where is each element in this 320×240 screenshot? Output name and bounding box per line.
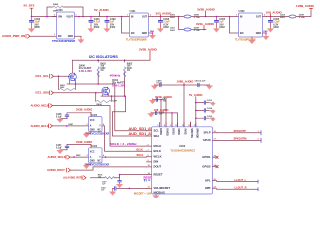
svg-text:AUDIO_BCLK: AUDIO_BCLK (31, 124, 51, 128)
ground C415 (211, 117, 216, 121)
svg-text:SPKVSS: SPKVSS (190, 128, 193, 138)
wire buffer2 Y to WCLK pin (102, 156, 147, 158)
svg-text:TLV75533PDQNR: TLV75533PDQNR (126, 39, 147, 42)
port AUDIO_BCLK (31, 124, 53, 128)
net 3V3B_AUDIO label buffer2 (76, 140, 92, 148)
svg-text:DOUT: DOUT (154, 165, 162, 169)
node Y2 junction (105, 156, 107, 158)
svg-text:600R: 600R (299, 14, 305, 16)
svg-text:0805: 0805 (34, 26, 40, 29)
svg-text:1%: 1% (127, 70, 130, 72)
svg-text:3V3B_AUDIO: 3V3B_AUDIO (76, 107, 92, 111)
ground 3V3B group (149, 99, 155, 104)
port AUDIO_PWR_ON (2, 34, 30, 38)
ground under C404 (213, 27, 219, 32)
svg-text:MICBIAS: MICBIAS (154, 191, 166, 195)
svg-text:U402: U402 (239, 10, 246, 13)
svg-text:I2C1_SDA: I2C1_SDA (36, 91, 50, 95)
resistor R401 bypass (59, 76, 76, 90)
svg-text:0402: 0402 (280, 16, 286, 19)
ground U401 GND/PAD (149, 30, 156, 39)
node SDA gate junction (95, 92, 97, 94)
capacitor C407 (56, 144, 91, 150)
svg-text:AUDIO_DOUT: AUDIO_DOUT (47, 168, 65, 172)
wire pullup rail (73, 59, 151, 61)
wire risers 3V3B pins (160, 99, 166, 127)
port AUDIO_RSTn (64, 176, 87, 180)
codec top pin stubs (160, 123, 196, 127)
svg-text:U403: U403 (179, 144, 186, 148)
wire SDA drop to codec (112, 96, 146, 136)
svg-text:U406: U406 (92, 145, 98, 148)
node SDA source junctions (111, 95, 126, 97)
capacitor C417 (102, 175, 121, 186)
svg-text:0.65-1.35V: 0.65-1.35V (79, 69, 92, 73)
wire 1V8 group row (151, 112, 178, 114)
codec right pin numbers (214, 131, 217, 189)
svg-text:VOUT: VOUT (66, 15, 73, 18)
wire SCL source row (67, 83, 115, 85)
svg-text:GND: GND (90, 129, 95, 131)
net 1V8B_AUDIO label row (177, 79, 194, 85)
svg-text:L401: L401 (170, 26, 176, 29)
node 1V8 junction (270, 16, 272, 18)
svg-text:SPKOUTM: SPKOUTM (234, 137, 247, 141)
capacitor C401 (89, 17, 101, 29)
wire SPLP out (217, 129, 262, 135)
svg-text:I2C1_SCL: I2C1_SCL (36, 74, 50, 78)
svg-text:DIN: DIN (154, 160, 159, 164)
svg-text:DNP: DNP (69, 124, 74, 126)
svg-text:0402: 0402 (110, 26, 116, 29)
buffer U405 (87, 114, 106, 132)
svg-text:GPIO2: GPIO2 (202, 164, 211, 168)
no-connect GPIO1 (216, 156, 218, 158)
ground under C402 (104, 27, 110, 32)
svg-text:600R: 600R (194, 27, 200, 29)
svg-text:WCLK: WCLK (137, 155, 144, 157)
svg-text:SPKOUTP: SPKOUTP (234, 129, 247, 133)
svg-text:OUT: OUT (256, 15, 262, 18)
node 3V3 junctions (160, 16, 180, 18)
node 5V junctions (78, 16, 122, 18)
svg-text:GPIO1: GPIO1 (202, 155, 211, 159)
svg-text:5V_DTE: 5V_DTE (24, 4, 35, 8)
node SCL source junctions (75, 83, 99, 85)
svg-text:0.1uF: 0.1uF (156, 83, 162, 85)
svg-text:0.65-1.35V: 0.65-1.35V (112, 84, 125, 88)
codec left pin stubs (147, 131, 152, 189)
capacitor C402 (105, 17, 116, 29)
codec left pin names (154, 129, 171, 195)
svg-text:1%: 1% (100, 70, 103, 72)
node VIN junction (31, 16, 33, 18)
codec right pin names (202, 131, 211, 191)
ground under C417 (117, 182, 123, 187)
capacitor C413 (195, 99, 215, 104)
svg-text:U401: U401 (130, 10, 137, 13)
svg-text:0402: 0402 (163, 26, 169, 29)
capacitor C405 (269, 17, 281, 29)
svg-text:3V3B_AUDIO: 3V3B_AUDIO (139, 47, 158, 51)
svg-text:MCLK: MCLK (154, 144, 162, 148)
svg-text:R400: R400 (53, 3, 59, 6)
capacitor C412 (156, 110, 165, 115)
svg-text:0402: 0402 (170, 29, 176, 32)
svg-text:MICDET = 1V8: MICDET = 1V8 (134, 192, 151, 195)
svg-text:EN: EN (131, 32, 135, 35)
wire 1V8B stub (297, 8, 312, 16)
wire DOUT to codec (70, 167, 147, 170)
svg-text:U400: U400 (57, 9, 64, 12)
port I2C1_SDA (36, 91, 54, 95)
svg-text:1V8B_AUDIO: 1V8B_AUDIO (177, 79, 194, 83)
ground under C400 (28, 27, 34, 32)
svg-text:WCLK: WCLK (154, 155, 162, 159)
capacitor C406 (56, 113, 91, 119)
svg-text:TPS7A0533PDBVR: TPS7A0533PDBVR (52, 39, 75, 43)
capacitor C404 (215, 17, 226, 29)
capacitor C409 (156, 79, 162, 86)
wire 3V3 rail (153, 16, 179, 18)
svg-text:EN: EN (58, 35, 62, 38)
wire SCL drop to codec (115, 84, 147, 131)
wire risers 1V8 pins (171, 112, 177, 127)
svg-text:(A) AUDIO_RSTn: (A) AUDIO_RSTn (64, 177, 84, 180)
svg-text:HPL: HPL (205, 178, 211, 182)
ground 1V8B row right (206, 84, 212, 89)
ground U400 GND (75, 36, 85, 43)
node SCL gate junction (58, 75, 60, 77)
port AUDIO_WCLK (48, 155, 71, 159)
port I2C1_SCL (36, 74, 54, 78)
ground under C405 (267, 27, 273, 32)
svg-text:HPR: HPR (205, 186, 211, 190)
ground under C403 (157, 27, 163, 32)
svg-text:L402: L402 (280, 13, 286, 16)
svg-text:IN: IN (131, 15, 134, 18)
ground C414 (211, 109, 216, 113)
wire riser pin DVDD (183, 85, 185, 127)
wire 3V3A stub (192, 29, 207, 31)
ground codec bottom (153, 194, 159, 199)
wire 5V rail (79, 16, 130, 18)
svg-text:I2C ISOLATORS: I2C ISOLATORS (89, 55, 118, 59)
svg-text:IN: IN (240, 15, 243, 18)
wire BCLK into buffer (52, 125, 89, 127)
svg-text:VCC: VCC (90, 120, 95, 122)
svg-text:OUT: OUT (142, 15, 148, 18)
note RESETn timing (144, 175, 169, 182)
svg-text:400kHz: 400kHz (110, 73, 121, 77)
wire SDA gate row (53, 92, 102, 94)
ground under C407 (57, 148, 67, 153)
svg-text:SCL: SCL (154, 129, 160, 133)
capacitor C418 VOL (101, 186, 147, 191)
svg-text:AVDD: AVDD (177, 128, 180, 135)
node WCLK junction (73, 155, 81, 158)
svg-text:TLV320AIC3206IRGZ: TLV320AIC3206IRGZ (171, 150, 196, 153)
net 3V3A_AUDIO label (196, 22, 215, 31)
svg-text:NC: NC (98, 161, 102, 163)
codec left pin numbers (148, 129, 151, 189)
svg-text:BCLK: BCLK (137, 149, 144, 151)
ground under C401 (88, 27, 94, 32)
svg-text:3V3B_AUDIO: 3V3B_AUDIO (197, 7, 216, 11)
transistor Q400 (69, 60, 92, 84)
svg-text:AUDIO_WCLK: AUDIO_WCLK (48, 155, 66, 159)
ground buffer U406 (83, 163, 99, 169)
svg-text:PAD: PAD (150, 30, 155, 33)
svg-text:VOL/MICDET: VOL/MICDET (154, 186, 171, 190)
wire EN riser U401 (122, 17, 130, 34)
codec U403 (152, 127, 213, 194)
wire SPLM out (217, 137, 262, 143)
net 5V_AUDIO label (94, 8, 109, 16)
node 3V3B junctions (205, 16, 231, 18)
ground under C406 (57, 117, 67, 122)
capacitor C415 (195, 115, 215, 120)
net 3V3B_AUDIO label (197, 7, 216, 16)
net 1V8B_AUDIO label (296, 4, 315, 8)
wire 3V3B rail (192, 16, 239, 18)
svg-text:VIN: VIN (58, 15, 62, 18)
svg-text:L400: L400 (170, 13, 176, 16)
regulator U401 (127, 10, 153, 37)
ground U402 GND/PAD (249, 30, 269, 44)
svg-text:3V3A_AUDIO: 3V3A_AUDIO (196, 22, 215, 26)
svg-text:AUDIO_PWR_ON: AUDIO_PWR_ON (2, 34, 25, 38)
wire 1V8B decoupling row (155, 84, 210, 86)
svg-text:IOVDD: IOVDD (166, 128, 169, 136)
wire 5V column riser (195, 97, 197, 127)
capacitor C410 (195, 79, 207, 86)
wire SDA source row (101, 95, 126, 97)
ground 1V8B row left (151, 84, 157, 89)
net 3V3_AUDIO label (156, 12, 173, 17)
resistor R400 DNP bypass (46, 3, 84, 17)
ground 1V8 group (148, 112, 154, 117)
ground under C418 (110, 188, 116, 195)
wire riser short pin (190, 122, 192, 127)
transistor Q401 (102, 79, 125, 96)
svg-text:100: 100 (98, 176, 101, 178)
no-connect GPIO2 (216, 165, 218, 167)
wire 3V3B group row (153, 99, 167, 101)
svg-text:0.1uF: 0.1uF (56, 148, 63, 150)
svg-text:SDA: SDA (154, 134, 160, 138)
resistor R406 series (98, 173, 115, 178)
svg-text:RESET: RESET (154, 172, 163, 176)
wire VIN rail (32, 16, 57, 18)
svg-text:GND: GND (256, 32, 262, 35)
wire HPL out (217, 178, 259, 183)
node BCLK junction with DNP tag (66, 124, 74, 127)
net 3V3B_AUDIO label isolator (139, 47, 158, 60)
svg-text:DVSS: DVSS (172, 128, 175, 135)
svg-text:DVDD: DVDD (159, 128, 162, 135)
net 5V_DTE flag (24, 4, 35, 17)
ground C413 (211, 102, 216, 106)
svg-text:1V8B_AUDIO: 1V8B_AUDIO (296, 4, 315, 8)
buffer U406 (87, 145, 106, 163)
codec top pin names vertical (159, 128, 198, 138)
wire buffer1 Y to BCLK pin (102, 126, 147, 151)
svg-text:U405: U405 (92, 114, 98, 117)
svg-text:LLOUT_R: LLOUT_R (235, 186, 247, 190)
svg-text:PAD: PAD (264, 30, 269, 33)
node rail junctions (97, 59, 125, 61)
wire SCL gate row (53, 75, 69, 77)
wire HPR out (217, 186, 259, 191)
resistor R404 bypass (96, 93, 118, 106)
resistor R403 pullup (124, 60, 133, 96)
node RSTn junction (119, 174, 121, 176)
wire EN riser U402 (230, 17, 239, 34)
wire WCLK into buffer (70, 156, 89, 158)
svg-text:SPKVDD: SPKVDD (196, 128, 199, 138)
capacitor C414 (195, 107, 215, 112)
svg-text:0402: 0402 (170, 16, 176, 19)
capacitor C403 (159, 17, 171, 29)
svg-text:GND: GND (142, 32, 148, 35)
svg-text:5V_AUDIO: 5V_AUDIO (94, 8, 109, 12)
svg-text:DNP: DNP (60, 87, 65, 89)
svg-text:BCLK: BCLK (154, 149, 162, 153)
ferrite bead L400 (170, 13, 200, 19)
svg-text:2.2uF: 2.2uF (200, 80, 206, 82)
wire EN U400 (30, 35, 57, 37)
wire RSTn row (91, 175, 147, 178)
net 3V3B_AUDIO label buffer1 (76, 107, 92, 116)
svg-text:VCC: VCC (90, 151, 95, 153)
capacitor C411 (156, 97, 168, 102)
svg-text:SPLM: SPLM (203, 138, 211, 142)
svg-text:3V3B_AUDIO: 3V3B_AUDIO (76, 140, 92, 144)
svg-text:1uF: 1uF (159, 114, 163, 116)
svg-text:GND: GND (90, 161, 95, 163)
regulator U400 (53, 9, 80, 39)
svg-text:0.1uF: 0.1uF (56, 116, 63, 118)
svg-text:NC: NC (98, 129, 102, 131)
svg-text:0603: 0603 (94, 26, 100, 29)
svg-text:AVSS: AVSS (184, 128, 187, 135)
port AUDIO_DOUT (47, 168, 71, 172)
wire 1V8 rail (267, 16, 289, 18)
ferrite bead L402 (280, 13, 305, 19)
svg-text:600R: 600R (194, 14, 200, 16)
svg-text:0402: 0402 (273, 26, 279, 29)
wire split to beads (179, 17, 184, 30)
svg-text:LLOUT_L: LLOUT_L (235, 178, 247, 182)
svg-text:AUDIO_MCLK: AUDIO_MCLK (31, 104, 51, 108)
regulator U402 (236, 10, 267, 37)
codec top pin numbers (157, 124, 196, 127)
svg-text:GND: GND (68, 35, 74, 38)
svg-text:0402: 0402 (219, 26, 225, 29)
ferrite bead L401 (170, 26, 200, 32)
svg-text:EN: EN (240, 32, 244, 35)
wire MCLK to codec (52, 106, 147, 147)
svg-text:MCLK = 2 - 24MHz: MCLK = 2 - 24MHz (110, 142, 137, 146)
ground buffer U405 (83, 132, 99, 138)
svg-text:SPLP: SPLP (203, 131, 210, 135)
codec right pin stubs (213, 133, 217, 189)
net 1V8_AUDIO label (266, 10, 283, 16)
svg-text:DNP: DNP (76, 155, 81, 157)
capacitor C400 (30, 17, 41, 29)
resistor R402 pullup (97, 60, 106, 84)
port AUDIO_MCLK (31, 104, 53, 108)
